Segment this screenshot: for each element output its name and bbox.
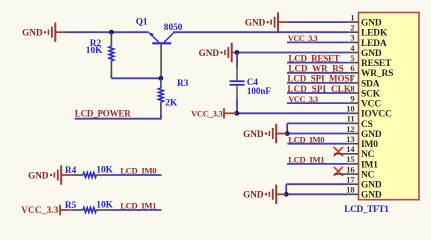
pin 18 GND [346, 186, 382, 201]
svg-text:LCD_POWER: LCD_POWER [75, 108, 131, 118]
svg-text:10K: 10K [96, 165, 113, 175]
svg-text:17: 17 [346, 176, 354, 185]
svg-text:GND: GND [361, 181, 382, 191]
svg-text:2: 2 [350, 24, 354, 33]
svg-text:LCD_SPI_CLK: LCD_SPI_CLK [287, 84, 351, 94]
svg-text:LCD_RESET: LCD_RESET [288, 53, 339, 63]
svg-text:LEDK: LEDK [361, 29, 388, 39]
svg-text:10K: 10K [96, 200, 113, 210]
ground GND3 (C4/pin4) [199, 43, 238, 62]
junction pin12 [285, 131, 290, 136]
svg-text:Q1: Q1 [136, 18, 148, 28]
svg-text:11: 11 [347, 115, 355, 124]
svg-text:GND: GND [361, 130, 382, 140]
wire NC pin16 stub [334, 173, 348, 175]
svg-text:6: 6 [350, 64, 354, 73]
svg-text:GND: GND [28, 170, 49, 180]
pin 13 IM0 [346, 135, 378, 150]
junction pin18 [284, 192, 289, 197]
svg-text:3: 3 [350, 34, 354, 43]
svg-text:18: 18 [346, 186, 354, 195]
svg-text:NC: NC [361, 150, 375, 160]
ground GND5 (pin17/18) [243, 185, 286, 204]
svg-text:13: 13 [346, 135, 354, 144]
wire R5 to net label [110, 209, 161, 211]
svg-text:GND: GND [243, 129, 264, 139]
svg-text:15: 15 [346, 155, 354, 164]
no-connect X pin 16 [334, 167, 343, 176]
svg-text:VCC_3.3: VCC_3.3 [191, 109, 223, 119]
wire pin5 RESET [287, 62, 348, 64]
svg-text:VCC_3.3: VCC_3.3 [288, 34, 318, 43]
wire pin8 SCK [287, 92, 348, 94]
pin 17 GND [346, 176, 382, 191]
ground GND4 (pin11/12) [243, 124, 287, 143]
wire pin1 GND [288, 21, 349, 23]
svg-text:IM1: IM1 [361, 160, 378, 170]
svg-text:5: 5 [350, 54, 354, 63]
svg-text:VCC_3.3: VCC_3.3 [288, 95, 318, 104]
wire pin6 WR_RS [287, 72, 348, 74]
svg-text:1: 1 [350, 13, 354, 22]
wire R4 to net label [110, 174, 161, 176]
wire pin17 GND [286, 183, 348, 185]
svg-text:GND: GND [245, 17, 266, 27]
junction GND3/C4/pin4 [235, 50, 240, 55]
resistor R3 [159, 78, 164, 114]
svg-text:100nF: 100nF [247, 86, 272, 96]
svg-text:SCK: SCK [361, 89, 381, 99]
svg-text:LCD_IM1: LCD_IM1 [120, 200, 156, 210]
wire pin13 IM0 [287, 143, 348, 145]
wire pin2 LEDK from Q1 collector [173, 31, 348, 33]
svg-text:R4: R4 [65, 166, 77, 176]
wire R3 bottom to LCD_POWER [75, 115, 162, 119]
junction R2 top [109, 30, 114, 35]
svg-text:2K: 2K [165, 98, 178, 108]
svg-text:IM0: IM0 [361, 140, 378, 150]
ground GND2 (pin1) [245, 12, 288, 31]
pin 5 RESET [348, 54, 392, 69]
wire pin11 to pin12 vertical [286, 123, 288, 133]
pin 1 GND [348, 13, 382, 28]
svg-text:9: 9 [350, 94, 354, 103]
wire pin11 CS [287, 122, 348, 124]
pin 4 GND [348, 44, 382, 59]
wire pin4 GND [237, 52, 348, 54]
svg-text:CS: CS [361, 120, 373, 130]
resistor R4 [71, 173, 111, 178]
junction base/R2/R3 [159, 76, 164, 81]
power port VCC_3.3 (C4) [191, 108, 237, 118]
svg-text:10: 10 [346, 105, 354, 114]
wire C4 bottom lead [236, 99, 238, 114]
resistor R2 [109, 32, 114, 73]
connector U? LCD_TFT1 body [359, 13, 420, 200]
wire GND1 to R2/emitter [66, 31, 149, 33]
svg-text:8050: 8050 [164, 23, 183, 33]
wire pin18 GND [286, 193, 348, 195]
pin 14 NC [346, 145, 374, 160]
svg-text:IOVCC: IOVCC [361, 110, 392, 120]
svg-text:GND: GND [243, 190, 264, 200]
pin 9 VCC [348, 94, 381, 109]
pin 2 LEDK [348, 24, 388, 39]
svg-text:WR_RS: WR_RS [361, 69, 393, 79]
svg-text:VCC_3.3: VCC_3.3 [21, 206, 59, 216]
svg-text:LCD_TFT1: LCD_TFT1 [344, 205, 389, 215]
transistor Q1 [148, 32, 174, 78]
svg-text:LCD_IM0: LCD_IM0 [288, 135, 324, 145]
power port VCC_3.3 (R5) [21, 205, 70, 216]
svg-text:GND: GND [361, 19, 382, 29]
wire pin10 IOVCC rail [237, 112, 348, 114]
wire C4 top lead [236, 53, 238, 69]
svg-text:LCD_WR_RS: LCD_WR_RS [288, 64, 343, 74]
svg-text:R5: R5 [65, 201, 77, 211]
pin 8 SCK [348, 84, 380, 99]
ground GND1 [22, 23, 66, 42]
wire pin17 to pin18 vertical [285, 184, 287, 194]
junction C4/VCC rail [234, 111, 239, 116]
resistor R5 [71, 208, 111, 213]
wire pin7 SDA [287, 82, 348, 84]
svg-text:12: 12 [346, 125, 354, 134]
wire pin15 IM1 [287, 163, 348, 165]
wire pin12 GND [287, 133, 348, 135]
svg-text:VCC: VCC [361, 100, 381, 110]
wire NC pin14 stub [334, 153, 348, 155]
pin 10 IOVCC [346, 105, 392, 120]
svg-text:GND: GND [361, 191, 382, 201]
svg-text:14: 14 [346, 145, 355, 154]
pin 16 NC [346, 165, 374, 180]
wire pin3 LEDA VCC_3.3 [287, 41, 348, 43]
capacitor C4 [230, 68, 245, 99]
svg-text:GND: GND [199, 48, 220, 58]
svg-text:R3: R3 [177, 79, 189, 89]
wire R2 bottom to base junction [111, 73, 160, 78]
pin 7 SDA [348, 74, 379, 89]
svg-text:LCD_SPI_MOSI: LCD_SPI_MOSI [287, 74, 353, 84]
pin 15 IM1 [346, 155, 378, 170]
pin 6 WR_RS [348, 64, 393, 79]
wire pin9 VCC [287, 102, 348, 104]
svg-text:GND: GND [22, 28, 43, 38]
svg-text:NC: NC [361, 171, 375, 181]
pin 11 CS [347, 115, 373, 130]
svg-text:16: 16 [346, 165, 354, 174]
svg-text:SDA: SDA [361, 79, 380, 89]
svg-text:LCD_IM1: LCD_IM1 [288, 155, 324, 165]
pin 3 LEDA [348, 34, 387, 49]
svg-text:10K: 10K [86, 46, 103, 56]
svg-text:LEDA: LEDA [361, 39, 387, 49]
svg-text:RESET: RESET [361, 59, 392, 69]
svg-text:GND: GND [361, 49, 382, 59]
svg-text:LCD_IM0: LCD_IM0 [120, 165, 156, 175]
pin 12 GND [346, 125, 382, 140]
no-connect X pin 14 [334, 147, 343, 156]
ground GND6 [28, 165, 71, 184]
